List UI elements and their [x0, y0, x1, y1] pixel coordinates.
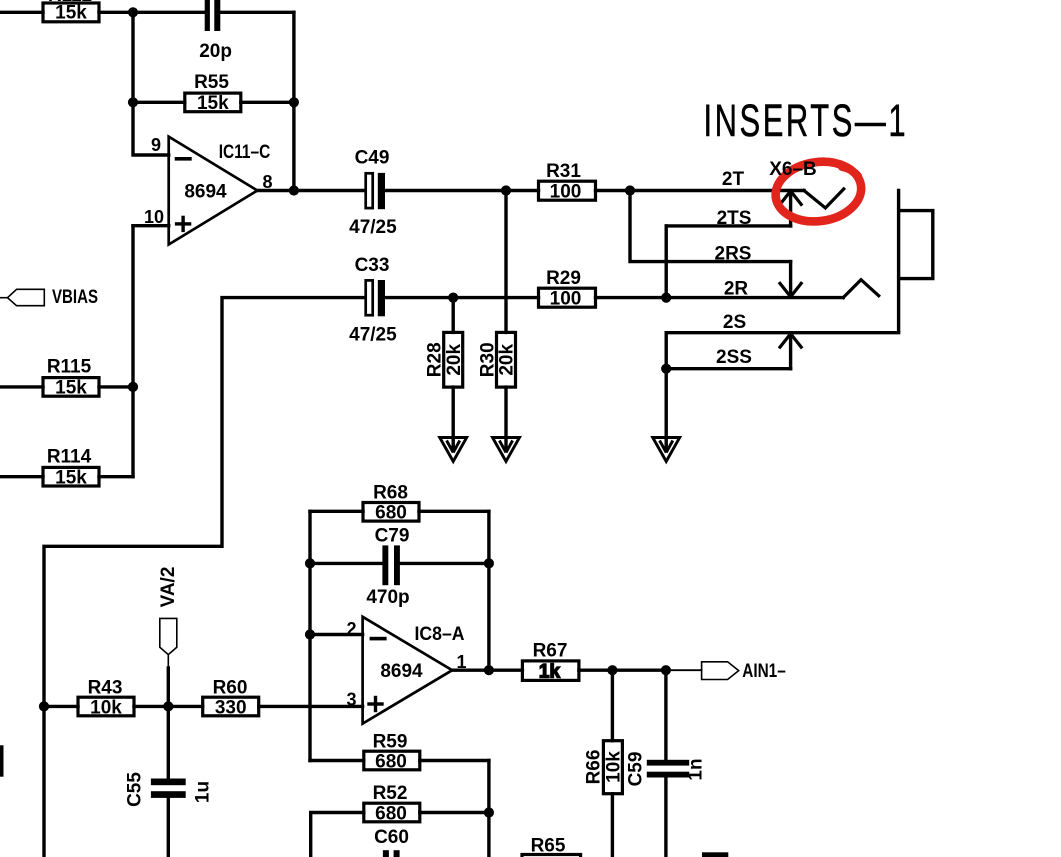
- svg-text:20k: 20k: [444, 344, 465, 376]
- wire pin2 lead: [310, 633, 363, 636]
- wire IC11 output to C49: [257, 189, 365, 192]
- resistor R115: [43, 378, 99, 397]
- wire R112 to node top: [99, 11, 205, 14]
- op-amp IC11-C: [169, 137, 258, 245]
- wire C79 right lead: [400, 562, 489, 565]
- VA/2 flag: [160, 618, 177, 654]
- VBIAS flag: [8, 289, 45, 305]
- wire R59 left lead: [310, 759, 364, 762]
- wire 2TS down to 2R node: [665, 226, 668, 298]
- svg-text:2RS: 2RS: [715, 244, 752, 265]
- svg-text:680: 680: [375, 751, 407, 772]
- node 2T: [625, 185, 635, 195]
- svg-text:INSERTS—1: INSERTS—1: [704, 96, 909, 146]
- node C79 left: [305, 558, 315, 568]
- node R52 right: [484, 807, 494, 817]
- svg-text:10k: 10k: [604, 751, 625, 783]
- svg-text:R55: R55: [194, 72, 229, 93]
- resistor R28 (vertical): [444, 332, 463, 387]
- svg-text:IC11–C: IC11–C: [219, 142, 271, 163]
- node R66 top: [607, 665, 617, 675]
- partial component left edge: [0, 745, 4, 776]
- svg-text:3: 3: [346, 690, 356, 710]
- wire C55 top lead: [167, 706, 170, 778]
- svg-text:VA/2: VA/2: [158, 567, 179, 608]
- wire R30 branch from 2T net: [504, 191, 507, 333]
- svg-text:C49: C49: [355, 148, 390, 169]
- wire C-20p right to rail: [222, 11, 294, 14]
- wire C49 to R31: [385, 189, 539, 192]
- svg-text:R115: R115: [47, 357, 92, 378]
- svg-text:20p: 20p: [199, 41, 232, 62]
- resistor R66 (vertical): [603, 741, 622, 794]
- svg-text:2: 2: [346, 619, 356, 639]
- wire R60 to pin3: [259, 705, 363, 708]
- wire R28 to ground: [452, 387, 455, 450]
- svg-text:680: 680: [375, 503, 407, 524]
- wire left rail top to pin9: [133, 12, 169, 155]
- resistor R55: [185, 93, 241, 112]
- resistor R29: [539, 288, 596, 307]
- ground below R28: [440, 438, 467, 462]
- wire AIN1 flag stub: [666, 669, 702, 671]
- resistor R31: [539, 181, 596, 200]
- capacitor C60 (clipped): [383, 850, 400, 857]
- svg-text:10k: 10k: [90, 697, 122, 718]
- resistor R43: [78, 697, 134, 716]
- ground below R30: [493, 438, 520, 462]
- resistor R60: [203, 697, 259, 716]
- wire VA/2 drop: [167, 668, 170, 706]
- resistor R59: [364, 751, 420, 770]
- jack X6-B ring contact: [843, 280, 879, 298]
- svg-text:R28: R28: [425, 342, 446, 377]
- capacitor C59: [647, 760, 689, 778]
- wire R66 top lead: [611, 670, 614, 741]
- wire 2SS arrow shaft: [789, 337, 792, 369]
- AIN1- flag: [702, 662, 739, 680]
- wire R114 right lead: [99, 475, 133, 478]
- wire R55 left lead: [133, 101, 185, 104]
- partial component bottom right: [702, 852, 728, 857]
- svg-text:VBIAS: VBIAS: [52, 287, 98, 308]
- svg-text:8694: 8694: [184, 182, 227, 203]
- svg-text:8694: 8694: [380, 661, 423, 682]
- wire pin10 rail down to R114: [131, 226, 134, 477]
- node IC8 output: [484, 665, 494, 675]
- wire R115 left lead: [0, 385, 43, 388]
- wire right feedback rail IC11: [292, 12, 295, 190]
- wire C33 to R29: [385, 296, 539, 299]
- wire 2SS node to ground: [665, 369, 668, 450]
- node pin2: [305, 629, 315, 639]
- wire R31 to node 2T: [596, 189, 631, 192]
- node IC11 output: [289, 185, 299, 195]
- svg-text:2SS: 2SS: [716, 347, 752, 368]
- wire R59 R52 right rail down: [487, 761, 490, 857]
- svg-text:10: 10: [144, 207, 164, 227]
- wire R55 right lead: [241, 101, 294, 104]
- wire R60 left lead: [168, 705, 202, 708]
- wire R30 to ground: [504, 387, 507, 450]
- wire R59 right lead: [420, 759, 489, 762]
- svg-text:R52: R52: [373, 783, 408, 804]
- svg-text:C55: C55: [125, 772, 146, 807]
- wire IC8 output to R67: [452, 669, 522, 672]
- svg-text:47/25: 47/25: [349, 325, 397, 346]
- wire C59 top lead: [664, 670, 667, 760]
- svg-text:AIN1–: AIN1–: [742, 661, 786, 682]
- node C49/R31: [501, 185, 511, 195]
- wire 2SS: [666, 367, 790, 370]
- svg-text:R68: R68: [373, 483, 408, 504]
- svg-text:2R: 2R: [724, 279, 749, 300]
- resistor R65 (clipped): [522, 855, 581, 857]
- wire 2TS arrow shaft: [789, 194, 792, 226]
- capacitor C49: [366, 173, 373, 208]
- svg-text:2T: 2T: [722, 169, 745, 190]
- svg-text:2TS: 2TS: [717, 208, 752, 229]
- svg-text:330: 330: [215, 697, 247, 718]
- capacitor C79: [382, 545, 400, 585]
- svg-text:15k: 15k: [55, 468, 87, 489]
- wire C79 left lead: [310, 562, 382, 565]
- jack X6-B tip switch arrow (up): [780, 191, 801, 204]
- svg-text:47/25: 47/25: [349, 217, 397, 238]
- resistor R114: [43, 467, 99, 486]
- wire R115 right lead: [99, 385, 133, 388]
- svg-text:C79: C79: [375, 526, 410, 547]
- red annotation circle: [772, 156, 865, 226]
- jack X6-B tip contact: [804, 189, 844, 208]
- jack X6-B ring switch arrow (down): [780, 283, 801, 296]
- node top-left: [128, 7, 138, 17]
- wire R114 left lead: [0, 475, 43, 478]
- wire pin10 lead: [133, 224, 169, 227]
- svg-text:1: 1: [456, 652, 466, 672]
- svg-text:IC8–A: IC8–A: [415, 624, 465, 645]
- svg-text:C59: C59: [626, 752, 647, 787]
- svg-text:1n: 1n: [686, 758, 707, 780]
- wire R68 right lead: [419, 510, 489, 513]
- resistor R30 (vertical): [497, 332, 516, 387]
- node C79 right: [484, 558, 494, 568]
- node C59 top: [661, 665, 671, 675]
- resistor R52: [364, 803, 420, 822]
- node R43 left: [39, 701, 49, 711]
- wire R29 to 2R: [596, 296, 844, 299]
- svg-text:8: 8: [262, 172, 272, 192]
- svg-text:15k: 15k: [197, 93, 229, 114]
- svg-text:R114: R114: [47, 447, 92, 468]
- svg-text:9: 9: [151, 135, 161, 155]
- ground below 2SS node: [653, 438, 680, 462]
- svg-text:1u: 1u: [193, 781, 214, 803]
- jack X6-B sleeve switch arrow (up): [780, 334, 801, 347]
- node 2R: [661, 293, 671, 303]
- svg-text:R59: R59: [373, 732, 408, 753]
- node R55 left: [128, 97, 138, 107]
- svg-text:C33: C33: [355, 255, 390, 276]
- wire R43 left lead: [44, 705, 78, 708]
- svg-text:680: 680: [375, 803, 407, 824]
- wire C59 bottom lead: [664, 778, 667, 857]
- wire 2RS arrow shaft: [789, 262, 792, 294]
- svg-text:R30: R30: [477, 342, 498, 377]
- svg-text:C60: C60: [374, 827, 409, 848]
- wire R66 bottom lead: [611, 794, 614, 857]
- svg-text:15k: 15k: [55, 3, 87, 24]
- jack X6-B body: [899, 189, 933, 333]
- svg-text:R29: R29: [546, 268, 581, 289]
- wire left feedback rail IC8: [308, 511, 311, 760]
- node C33/R28: [448, 293, 458, 303]
- resistor R112 (top, clipped): [43, 3, 99, 22]
- svg-text:R66: R66: [584, 750, 605, 785]
- wire 2S: [666, 331, 898, 334]
- wire 2S corner down to 2SS: [665, 333, 668, 369]
- node R115: [128, 382, 138, 392]
- svg-text:15k: 15k: [55, 378, 87, 399]
- resistor R67: [522, 661, 579, 681]
- wire 2T to jack tip: [630, 189, 804, 192]
- node VA/2: [163, 701, 173, 711]
- wire C55 bottom lead: [167, 798, 170, 857]
- wire 2TS: [666, 224, 790, 227]
- capacitor 20p plates: [205, 0, 221, 31]
- svg-text:R60: R60: [213, 678, 248, 699]
- svg-text:2S: 2S: [723, 312, 746, 333]
- svg-text:1k: 1k: [539, 662, 561, 683]
- wire C33 left lead to corner: [44, 298, 365, 857]
- svg-text:100: 100: [550, 288, 582, 309]
- wire R68 left lead: [310, 510, 363, 513]
- node R55 right: [289, 97, 299, 107]
- svg-text:470p: 470p: [366, 587, 409, 608]
- wire R28 branch: [452, 298, 455, 333]
- svg-text:R65: R65: [531, 836, 566, 857]
- wire R43 right lead: [134, 705, 168, 708]
- svg-text:20k: 20k: [497, 344, 518, 376]
- svg-text:R67: R67: [533, 641, 568, 662]
- svg-text:X6–B: X6–B: [769, 159, 817, 180]
- wire R52 right lead: [420, 811, 489, 814]
- node 2SS: [661, 364, 671, 374]
- op-amp IC8-A: [363, 617, 453, 724]
- capacitor C55: [151, 779, 186, 798]
- svg-text:100: 100: [550, 181, 582, 202]
- wire R52 left lead and drop: [311, 813, 364, 857]
- wire R67 to AIN1 node: [579, 669, 666, 672]
- svg-text:R43: R43: [88, 678, 123, 699]
- wire 2T branch down to 2RS: [630, 191, 791, 262]
- svg-text:R31: R31: [546, 161, 581, 182]
- capacitor C33: [366, 280, 373, 315]
- wire R112 left lead: [0, 11, 43, 14]
- wire right feedback rail IC8: [487, 511, 490, 670]
- resistor R68: [363, 503, 419, 522]
